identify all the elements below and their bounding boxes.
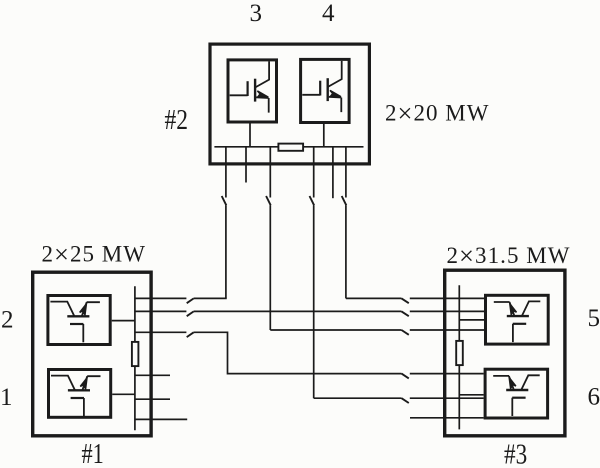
generator unit 3 box bbox=[228, 60, 277, 122]
feeder wire L1 (to station #1 top line) bbox=[225, 147, 227, 198]
switch on L6 bbox=[342, 196, 347, 205]
tie line B2 right segment bbox=[410, 397, 484, 399]
bus bar of station #3 bbox=[458, 285, 460, 429]
wire L4 lower segment bbox=[313, 205, 315, 398]
power station #1 enclosure bbox=[33, 272, 151, 436]
stub line from bus #1 (upper) bbox=[135, 374, 170, 376]
tie line C right segment bbox=[410, 373, 484, 375]
IGBT symbol unit 6 bbox=[493, 375, 540, 416]
resistor R2 on bus #2 bbox=[278, 144, 303, 151]
wire: unit 3 to bus #2 bbox=[249, 124, 251, 147]
resistor R1 on bus #1 bbox=[132, 342, 139, 366]
svg-text:#1: #1 bbox=[82, 439, 104, 468]
svg-text:3: 3 bbox=[250, 0, 263, 27]
wire: unit 2 to bus #1 bbox=[112, 320, 135, 322]
switch on L3 bbox=[266, 196, 271, 205]
svg-text:4: 4 bbox=[322, 0, 335, 27]
stub line from bus #1 (middle) bbox=[135, 398, 170, 400]
generator unit 1 box bbox=[49, 370, 111, 418]
feeder wire L6 (to station #3 top line) bbox=[345, 147, 347, 198]
tie line A: station #1 bus to L1 bbox=[135, 297, 187, 299]
IGBT symbol unit 3 bbox=[230, 61, 269, 112]
feeder stub L2 bbox=[245, 147, 247, 183]
generator unit 6 box bbox=[485, 369, 547, 418]
stub line from bus #1 (lower) bbox=[135, 418, 187, 420]
svg-text:1: 1 bbox=[0, 384, 13, 411]
tie line R1: L6 to station #3 top line bbox=[346, 297, 402, 299]
stub line B3 at station #3 bbox=[410, 417, 484, 419]
IGBT symbol unit 5 bbox=[494, 301, 541, 342]
wire L6 lower segment bbox=[345, 205, 347, 298]
generator unit 5 box bbox=[486, 295, 549, 344]
svg-text:#3: #3 bbox=[504, 439, 527, 468]
switch on L4 bbox=[310, 196, 315, 205]
svg-text:5: 5 bbox=[588, 305, 600, 332]
tie line M: station #1 bus to station #3 bus bbox=[135, 310, 187, 312]
bus bar of station #2 bbox=[214, 146, 363, 148]
generator unit 4 box bbox=[301, 59, 350, 122]
wire L3 lower segment bbox=[269, 205, 271, 330]
power station #3 enclosure bbox=[445, 270, 565, 436]
bus bar of station #1 bbox=[134, 286, 136, 430]
switch on tie line C right bbox=[402, 374, 409, 379]
tie line A right segment bbox=[194, 297, 227, 299]
feeder stub L5 bbox=[332, 147, 334, 198]
IGBT symbol unit 2 bbox=[50, 302, 100, 343]
svg-text:2×20 MW: 2×20 MW bbox=[385, 98, 489, 128]
switch on tie line R3 bbox=[402, 330, 409, 335]
tie line M right segment bbox=[410, 310, 484, 312]
svg-text:2×25 MW: 2×25 MW bbox=[42, 239, 146, 269]
tie line C: station #1 bus toward station #3 (jogged) bbox=[135, 331, 187, 333]
tie line M middle segment bbox=[194, 310, 402, 312]
IGBT symbol unit 4 bbox=[302, 61, 341, 112]
svg-text:2: 2 bbox=[1, 307, 14, 334]
switch on tie line C bbox=[187, 332, 194, 337]
svg-text:#2: #2 bbox=[165, 105, 189, 136]
wire: unit 4 to bus #2 bbox=[323, 124, 325, 147]
wire: bus #3 to unit 5 bbox=[459, 319, 484, 321]
switch on tie line B2 bbox=[402, 398, 409, 403]
tie line R3: L3 to station #3 bbox=[270, 329, 401, 331]
svg-text:6: 6 bbox=[588, 384, 600, 411]
power station #2 enclosure bbox=[210, 44, 369, 164]
wire: unit 1 to bus #1 bbox=[112, 393, 135, 395]
switch on tie line M left bbox=[187, 311, 194, 316]
generator unit 2 box bbox=[48, 296, 110, 345]
switch on tie line R1 bbox=[402, 298, 409, 303]
tie line R3 right segment bbox=[410, 329, 484, 331]
switch on L1 bbox=[222, 196, 227, 205]
feeder wire L3 (to station #3 third line) bbox=[269, 147, 271, 198]
tie line C jog segment bbox=[194, 332, 402, 373]
resistor R3 on bus #3 bbox=[456, 341, 463, 365]
switch on tie line A bbox=[187, 298, 194, 303]
switch on tie line M right bbox=[402, 311, 409, 316]
wire L1 lower segment with elbow bbox=[225, 205, 227, 298]
tie line B2: L4 to station #3 lower bbox=[314, 397, 402, 399]
IGBT symbol unit 1 bbox=[51, 376, 101, 417]
tie line R1 right segment bbox=[410, 297, 484, 299]
wire: bus #3 to unit 6 bbox=[459, 394, 483, 396]
feeder wire L4 (to station #3 lower line) bbox=[313, 147, 315, 198]
svg-text:2×31.5 MW: 2×31.5 MW bbox=[447, 240, 570, 270]
